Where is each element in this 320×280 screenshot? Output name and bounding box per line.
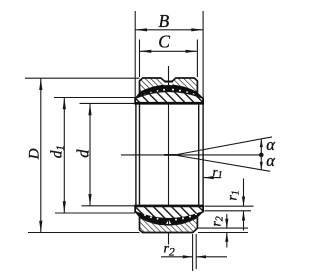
dimension d1 line and arrows (63, 98, 65, 214)
silhouette: inner ring right face through bore (202, 103, 204, 205)
dimension d horizontal extension top (80, 102, 136, 104)
dimension B line and arrows (135, 29, 203, 31)
silhouette: inner ring left face through bore (135, 103, 137, 205)
silhouette: outer ring left face through bore (139, 103, 141, 205)
inner ring right face (thick) (202, 98, 204, 104)
svg-text:D: D (26, 148, 42, 160)
dimension d1 horizontal extension bottom (55, 212, 135, 214)
bore upper line (134, 102, 204, 104)
angle line lower (175, 155, 271, 171)
outer ring upper section (140, 78, 198, 93)
angle vertex thick stub (164, 154, 176, 156)
r1 leader arrow (204, 177, 220, 179)
angle line upper (175, 137, 273, 155)
dimension B extension lines (134, 11, 136, 98)
dimension D horizontal extension top (25, 77, 140, 79)
dimension d horizontal extension bottom (82, 205, 136, 207)
split gap below top notch (165, 83, 173, 86)
wire: horizontal axis center line (121, 154, 262, 156)
r2 bottom dimension arrows (161, 256, 193, 258)
dimension d1 horizontal extension top (54, 97, 135, 99)
r2 dimension extension lines right (198, 227, 248, 229)
svg-text:α: α (266, 151, 275, 170)
r2 dimension arrows right (226, 214, 228, 228)
inner ring lower section (135, 207, 203, 219)
inner ring upper section (135, 91, 203, 102)
silhouette: outer ring right face through bore (198, 103, 200, 205)
bore lower line (134, 205, 204, 207)
outer ring lower section (140, 217, 198, 232)
r2 bottom extension lines (192, 234, 194, 271)
svg-text:C: C (158, 32, 170, 52)
node: center dot on axis (259, 153, 264, 158)
split gap in lower liner (164, 220, 173, 227)
liner dark band upper (135, 85, 203, 98)
alpha dimension vertical line (260, 139, 262, 170)
inner ring left face (thick) (134, 98, 136, 104)
wire: vertical center line of bearing (168, 66, 170, 245)
r1 dimension extension lines right (205, 205, 254, 207)
dimension D horizontal extension bottom (28, 232, 140, 234)
dimension C line and arrows (140, 50, 198, 52)
dimension D line and arrows (40, 78, 42, 232)
svg-text:d: d (74, 149, 93, 158)
svg-text:B: B (159, 11, 170, 31)
dimension C extension lines (139, 40, 141, 78)
r1 dimension arrows (243, 179, 245, 207)
dimension d line and arrows (89, 103, 91, 205)
liner dark band lower (135, 212, 203, 227)
